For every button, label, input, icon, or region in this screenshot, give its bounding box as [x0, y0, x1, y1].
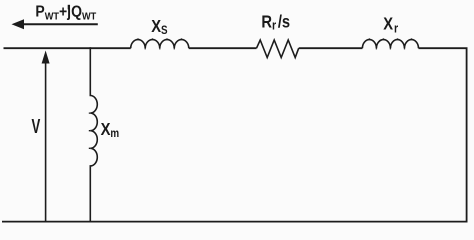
svg-text:Xm: Xm — [101, 119, 120, 140]
svg-text:V: V — [32, 115, 41, 137]
svg-text:Rr/s: Rr/s — [261, 12, 290, 33]
svg-text:Xr: Xr — [383, 14, 398, 36]
svg-text:XS: XS — [151, 17, 167, 37]
svg-text:PWT+jQWT: PWT+jQWT — [35, 3, 96, 23]
